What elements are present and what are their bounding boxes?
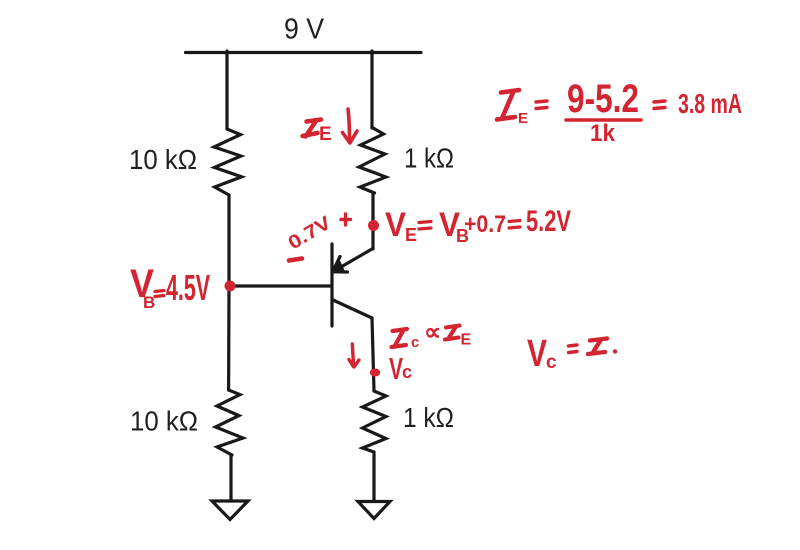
svg-text:5.2V: 5.2V	[526, 205, 571, 238]
svg-text:V: V	[385, 206, 406, 244]
svg-text:1k: 1k	[590, 120, 616, 147]
resistor R2 1 kOhm top-right	[359, 128, 386, 193]
svg-text:1 kΩ: 1 kΩ	[403, 402, 454, 433]
svg-text:E: E	[518, 110, 528, 127]
svg-text:10 kΩ: 10 kΩ	[130, 406, 198, 437]
node VB (red junction dot)	[225, 281, 236, 292]
wire: R1 to VB node to R3	[227, 195, 231, 390]
annotation VB = 4.5V	[130, 262, 210, 312]
annotation IE label (red handwritten I with subscript E)	[303, 120, 332, 146]
wire: 9V supply rail	[186, 51, 422, 54]
wire: R2 to emitter bend	[371, 193, 374, 249]
svg-text:c: c	[411, 334, 419, 351]
annotation IE down arrow (red)	[343, 109, 358, 143]
svg-text:9 V: 9 V	[284, 14, 325, 46]
svg-text:3.8 mA: 3.8 mA	[678, 88, 742, 119]
wire: base wire	[230, 284, 331, 287]
svg-text:10 kΩ: 10 kΩ	[129, 144, 197, 175]
wire: rail to R1	[225, 51, 228, 129]
resistor R4 1 kOhm bottom-right	[363, 391, 387, 452]
svg-text:B: B	[143, 293, 155, 312]
resistor R1 10 kOhm top-left	[214, 129, 242, 195]
annotation 0.7V polarity (rotated red text with + and -)	[285, 212, 351, 260]
svg-text:E: E	[461, 332, 472, 349]
annotation Ic down arrow (red)	[349, 344, 359, 367]
ground (left)	[212, 501, 248, 520]
annotation VC = I. (red, right side)	[527, 333, 617, 375]
wire: R4 to ground	[372, 452, 375, 501]
node VC (red dot)	[370, 369, 380, 377]
svg-text:+0.7: +0.7	[464, 211, 506, 238]
wire: R3 to ground	[229, 455, 232, 501]
transistor Q1 emitter (diagonal with arrow into bar)	[334, 249, 372, 271]
svg-text:V: V	[527, 333, 548, 375]
transistor Q1 PNP: base bar	[330, 244, 333, 326]
ground (right)	[358, 502, 390, 519]
resistor R3 10 kOhm bottom-left	[216, 390, 244, 455]
svg-text:E: E	[405, 225, 417, 245]
transistor Q1 collector diagonal	[333, 300, 372, 318]
svg-text:c: c	[402, 362, 412, 382]
svg-text:E: E	[319, 124, 332, 145]
wire: rail to R2	[370, 51, 373, 128]
svg-text:∝: ∝	[424, 319, 441, 346]
annotation IE equation: IE = (9-5.2)/1k = 3.8 mA (red, top right)	[497, 77, 742, 147]
node VE (red dot)	[368, 220, 379, 231]
svg-text:c: c	[546, 352, 557, 373]
annotation VE = VB+0.7 = 5.2V	[385, 205, 571, 246]
svg-text:4.5V: 4.5V	[166, 267, 210, 308]
wire: collector to R4	[372, 318, 374, 391]
svg-text:1 kΩ: 1 kΩ	[404, 143, 454, 174]
svg-text:9-5.2: 9-5.2	[567, 77, 639, 121]
annotation VC label (red)	[389, 351, 412, 386]
annotation Ic approx IE (red)	[392, 319, 472, 351]
